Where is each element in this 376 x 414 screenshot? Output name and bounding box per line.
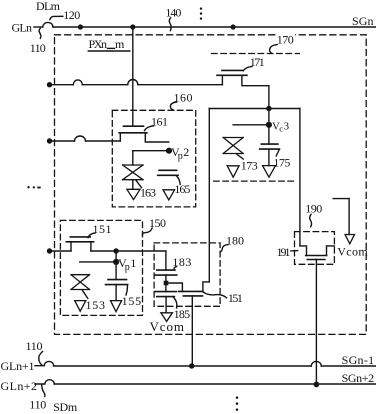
node dot Vp1 (113, 259, 119, 265)
leader of 110 top (39, 28, 41, 38)
svg-text:110: 110 (26, 339, 43, 353)
svg-text:SGn+2: SGn+2 (342, 371, 375, 385)
leader of 161 (145, 126, 154, 131)
label Vcom under box 180 (150, 319, 185, 334)
leader of 175 (276, 150, 279, 156)
transistor 181 right lead jog to node bus (203, 282, 209, 292)
hump on GLn rail under DLm (43, 22, 53, 27)
label Vc3 (272, 120, 290, 133)
leader of 120 (50, 16, 63, 19)
label 183 (172, 255, 191, 269)
label 155 (122, 294, 142, 308)
leader of 173 (237, 154, 243, 159)
node dot on GLn rail (x=133, gate of 161) (130, 24, 135, 29)
label SDm (53, 400, 78, 414)
capacitor 185 bottom plate (157, 296, 175, 298)
transistor 191 channel bar (306, 255, 327, 257)
svg-text:DLm: DLm (36, 0, 61, 13)
svg-text:GLn+1: GLn+1 (1, 359, 35, 373)
svg-text:190: 190 (305, 201, 322, 215)
wire gate line GLn (top rail y=27) (34, 26, 43, 28)
node dot row4 left (47, 248, 52, 253)
pigtail lead GLn+2 (35, 380, 54, 384)
label DLm (36, 0, 61, 13)
svg-text:1: 1 (130, 256, 136, 270)
transistor 171 gate bar (222, 69, 243, 71)
solid node bus left side down to transistor 181 (208, 109, 210, 282)
leader of 160 (170, 102, 176, 110)
label 181 (228, 291, 243, 305)
leader of 181 (204, 292, 227, 297)
svg-text:120: 120 (63, 8, 80, 22)
svg-text:151: 151 (93, 222, 112, 236)
label GLn+2 (1, 379, 38, 393)
leader of 151 (88, 233, 95, 238)
label 180 (226, 233, 244, 247)
ground under 173 (227, 166, 239, 177)
transistor 171 right lead to node (242, 75, 269, 108)
label GLn (12, 20, 33, 34)
svg-text:165: 165 (174, 182, 190, 196)
svg-text:GLn+2: GLn+2 (1, 379, 38, 393)
wire gate lead of transistor 161 from rail (132, 27, 134, 126)
wire from Vp2 line down to diode 163 (132, 151, 134, 165)
wire row3 to transistor 161 left lead (86, 140, 121, 142)
wire row2 to transistor 171 left lead (138, 84, 223, 86)
wire gate lead of 181 down to SGn-1 (191, 296, 193, 366)
label 110 bottom2 (29, 398, 46, 412)
transistor 161 right lead (145, 133, 169, 142)
transistor 171 left lead (221, 75, 223, 84)
wire GLn rail continued to right edge (53, 26, 376, 28)
label 171 (250, 55, 265, 69)
label SGn (352, 14, 374, 28)
transistor 151 channel bar (66, 241, 93, 243)
node dot 181 gate on SGn-1 (189, 363, 194, 368)
label Vcom right (337, 244, 368, 258)
capacitor 165 top plate (159, 169, 177, 171)
label 191 (277, 245, 291, 259)
transistor 171 channel bar (217, 74, 247, 76)
wire row4 y=250.4 from left dot (50, 250, 72, 252)
ground under 153 (75, 301, 86, 312)
horizontal ellipsis left margin (27, 186, 40, 189)
wire lead below 163 (132, 180, 134, 190)
leader of 150 (142, 228, 152, 235)
wire from 151 right lead to box 180 (91, 250, 166, 252)
svg-text:153: 153 (86, 298, 106, 312)
wire from junction to transistor 181 left lead (166, 283, 183, 291)
ground under 175 (263, 166, 276, 178)
leader of 191 (291, 250, 298, 252)
ground under 163 (127, 189, 140, 199)
leader of 155 (126, 286, 127, 295)
hump on row2 at x=134 (gate lead of 161 crossing) (128, 80, 138, 85)
leader of 165 (177, 176, 181, 184)
node dot row2 left (47, 82, 52, 87)
svg-text:c: c (279, 123, 283, 133)
wire node Vc3 stub (233, 124, 269, 126)
dashed box 160 (112, 110, 195, 207)
dashed segment bottom of box 170 (214, 180, 295, 182)
wire between capacitor 183 and capacitor 185 (165, 275, 167, 292)
hump on row2 at x=78.5 (73, 80, 82, 85)
wire node Vp2 stub (133, 150, 169, 152)
leader of 183 (174, 266, 177, 269)
label 175 (273, 155, 290, 169)
transistor 161 channel bar (119, 132, 147, 134)
leader of 171 (243, 66, 252, 70)
svg-text:175: 175 (273, 155, 290, 169)
label 110 bottom1 (26, 339, 43, 353)
wire row2 y=85.2 from left dot (50, 84, 74, 86)
arrowhead Vcom (345, 235, 354, 244)
leader of 185 (174, 298, 177, 308)
wire lead below 175 (268, 149, 270, 166)
svg-text:110: 110 (30, 41, 46, 55)
svg-text:155: 155 (122, 294, 142, 308)
ground under 165 (163, 190, 175, 200)
leader of 140 (169, 18, 171, 31)
node dot row3 left (47, 138, 52, 143)
svg-text:180: 180 (226, 233, 244, 247)
leader of 190 (310, 214, 312, 226)
transistor 151 gate bar (70, 236, 90, 238)
solid node bus (three sided box) top (209, 108, 300, 110)
transistor 181 gate bar (183, 295, 202, 297)
dashed box 180 (154, 243, 220, 306)
outer dashed box PXn_m (55, 35, 367, 335)
transistor 191 left lead jog from node bus (300, 246, 307, 256)
label 151 (93, 222, 112, 236)
dashed segment top of box 170 (212, 53, 300, 55)
underscore of PXn_m (108, 47, 115, 49)
hump on row3 at x=78.5 (75, 136, 86, 141)
wire row3 y=140.8 from left dot (50, 140, 75, 142)
transistor 181 channel bar (179, 290, 203, 292)
label SGn+2 (342, 371, 375, 385)
svg-text:140: 140 (165, 6, 181, 20)
label 153 (86, 298, 106, 312)
wire down from junction to Vc3 (268, 109, 270, 145)
wire Vcom arrow horizontal (333, 198, 349, 200)
label 173 (241, 158, 258, 172)
wire down into box 180 to capacitor 183 (165, 251, 167, 270)
capacitor 155 bottom plate (106, 284, 128, 286)
hump on SGn-1 over 191 gate lead (311, 361, 321, 366)
transistor 161 left lead (119, 133, 121, 141)
capacitor 165 bottom plate (158, 174, 178, 176)
label SGn-1 (342, 353, 375, 367)
label 161 (151, 114, 168, 128)
label Vp1 (118, 256, 136, 273)
wire lead below 155 (115, 285, 117, 301)
label 163 (140, 185, 156, 199)
svg-text:170: 170 (277, 33, 294, 47)
ground under 185 (161, 313, 173, 322)
node dot at x=116 on row (113, 248, 118, 253)
capacitor 175 bottom plate (260, 148, 280, 150)
node dot on GLn rail (x=233) (231, 24, 236, 29)
svg-text:p: p (178, 151, 183, 162)
diode pair 163 (hourglass) (123, 165, 143, 180)
svg-text:SGn: SGn (352, 14, 374, 28)
node dot junction in box 180 (164, 281, 169, 286)
diode pair 173 (hourglass) (223, 138, 243, 154)
wire row2 mid (82, 84, 128, 86)
vertical ellipsis top (200, 7, 202, 19)
diode pair 153 (hourglass) (71, 275, 90, 290)
capacitor 155 top plate (108, 279, 127, 281)
transistor 191 gate bar (307, 259, 325, 261)
capacitor 175 top plate (261, 143, 278, 145)
svg-text:191: 191 (277, 245, 291, 259)
svg-text:163: 163 (140, 185, 156, 199)
ground under 155 (111, 301, 122, 312)
label 110 top (30, 41, 46, 55)
svg-text:PXn: PXn (89, 37, 108, 51)
label 140 (165, 6, 181, 20)
leader of 180 (220, 245, 228, 252)
wire node Vp1 stub (80, 261, 116, 263)
node dot 191 gate on SGn+2 (314, 382, 320, 388)
svg-text:173: 173 (241, 158, 258, 172)
svg-text:2: 2 (183, 145, 189, 159)
node dot on GLn rail (x=80) (78, 24, 83, 29)
vertical ellipsis bottom (236, 396, 239, 411)
leader of 110 bottom1 (39, 352, 43, 365)
wire gate lead of 191 down to SGn+2 (315, 260, 317, 385)
transistor 151 right lead (90, 242, 92, 251)
svg-text:m: m (115, 37, 125, 51)
dashed box 190 (295, 232, 335, 265)
wire lead below 185 (165, 297, 167, 313)
node dot Vp2 (166, 148, 172, 154)
wire SGn-1 row y=366.1 (54, 365, 312, 367)
svg-text:SGn-1: SGn-1 (342, 353, 375, 367)
dashed box 150 (60, 220, 142, 315)
svg-text:p: p (125, 262, 130, 273)
svg-text:110: 110 (29, 398, 46, 412)
svg-text:Vcom: Vcom (150, 319, 185, 334)
label 165 (174, 182, 190, 196)
label 190 (305, 201, 322, 215)
svg-text:SDm: SDm (53, 400, 78, 414)
leader of 170 (270, 45, 278, 54)
node dot Vc3 (266, 122, 272, 128)
solid node bus right side down to transistor 191 (299, 109, 301, 246)
label PXn_m (89, 37, 126, 51)
capacitor 183 top plate (157, 269, 175, 271)
leader of 163 (136, 180, 142, 187)
wire SGn-1 right part (321, 365, 376, 367)
pigtail lead GLn+1 (35, 361, 54, 365)
transistor 151 left lead (70, 242, 72, 251)
svg-text:3: 3 (284, 120, 290, 132)
node dot junction 171 output (266, 106, 271, 111)
wire SGn+2 row y=384.3 (54, 383, 376, 385)
label GLn+1 (1, 359, 35, 373)
label 150 (149, 216, 166, 230)
wire Vcom arrow vertical (348, 199, 350, 235)
label 170 (276, 33, 296, 47)
capacitor 183 bottom plate (155, 274, 177, 276)
label Vp2 (171, 145, 189, 162)
svg-text:Vcom: Vcom (337, 244, 368, 258)
leader of 110 bottom2 (42, 385, 45, 397)
transistor 191 right lead to Vcom (327, 246, 335, 256)
underline of PXn_m (88, 50, 130, 52)
label 160 (174, 90, 193, 104)
capacitor 185 top plate (155, 291, 176, 293)
svg-text:151: 151 (228, 291, 243, 305)
svg-text:GLn: GLn (12, 20, 33, 34)
label 120 (63, 8, 80, 22)
wire down from dot to Vp1 and capacitor 155 (115, 251, 117, 280)
label 185 (174, 307, 191, 321)
transistor 161 gate bar (124, 125, 144, 127)
leader of 153 (82, 290, 87, 298)
